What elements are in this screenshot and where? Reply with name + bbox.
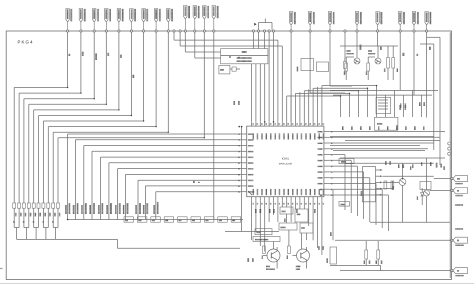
wire hrun 222 xyxy=(370,221,450,223)
IC801 right pin 26 xyxy=(317,166,332,167)
IC801 right pin 24 xyxy=(317,154,332,155)
wire cap run xyxy=(253,32,255,48)
wire bus-left 2 xyxy=(19,32,82,203)
wire IC top to right xyxy=(287,85,377,117)
IC801 right pin 29 xyxy=(317,183,332,184)
resistor R833 xyxy=(384,58,390,73)
table box th xyxy=(253,237,280,242)
connector tag T6 SCL OUT xyxy=(130,9,136,33)
resistor R871 xyxy=(364,250,371,264)
connector box CN803 xyxy=(361,167,383,202)
wire box drop b xyxy=(255,64,257,122)
wire IR run xyxy=(330,32,352,86)
IC801 left pin 12 xyxy=(238,162,253,163)
jumper J807 xyxy=(218,217,228,222)
wire right frame b xyxy=(433,44,435,150)
connector tag T4 AFT IN xyxy=(105,9,111,33)
labels near IC topleft xyxy=(234,101,240,105)
IC801 bottom pin 42 xyxy=(260,189,262,205)
IC801 bottom pin 29 xyxy=(318,189,320,205)
resistor R856 xyxy=(391,181,394,189)
resistor R827 xyxy=(42,203,46,228)
net label xyxy=(229,56,231,58)
wire C3 run xyxy=(399,32,401,90)
IC801 top pin 60 xyxy=(252,122,254,140)
IC801 left pin 22 xyxy=(238,191,254,192)
wire IC right fanout xyxy=(330,132,445,232)
IC801 top pin 49 xyxy=(300,122,302,140)
resistor R824 xyxy=(27,203,31,228)
svg-text:MAIN uCOM: MAIN uCOM xyxy=(279,163,292,166)
top bus junction xyxy=(272,30,274,32)
wire hrun 231 xyxy=(225,231,279,233)
wire right frame c xyxy=(439,37,441,165)
IC801 left pin 8 xyxy=(239,151,254,152)
IC801 top pin 44 xyxy=(322,122,324,140)
connector tag T13 YS OUT 1 xyxy=(212,6,218,33)
net label xyxy=(82,52,84,56)
resistor R830 xyxy=(57,203,61,228)
IC801 top pin 56 xyxy=(269,122,271,140)
connector tag T12 B OUT 1 xyxy=(203,6,209,33)
transistor Q803 xyxy=(347,50,361,64)
connector tag T1 SW 9V IN xyxy=(66,9,72,33)
connector tag T9 ABL IN xyxy=(167,9,173,33)
IC801 top pin 53 xyxy=(282,122,284,140)
net label xyxy=(238,57,240,58)
resistor R829 xyxy=(52,203,56,228)
IC801 bottom pin 44 xyxy=(252,189,254,205)
wire Q806 drop xyxy=(426,158,428,222)
resistor R832 xyxy=(366,63,370,75)
jumper J805 xyxy=(191,217,201,222)
wire top frame c xyxy=(420,43,434,45)
IC801 left pin 14 xyxy=(238,168,253,169)
resistor R831 xyxy=(344,63,348,75)
connector tag T20 HD IN 2 xyxy=(412,12,418,33)
IC801 bottom pin 34 xyxy=(296,189,298,205)
top bus junction xyxy=(344,30,346,32)
wire A1 run xyxy=(377,32,379,46)
IC801 bottom pin 37 xyxy=(282,189,284,205)
wire to IC top b xyxy=(281,46,283,122)
top bus junction xyxy=(268,30,270,32)
box xtal sub xyxy=(280,207,293,214)
IC801 bottom pin 31 xyxy=(309,189,311,205)
IC801 right pin 23 xyxy=(317,148,332,149)
IC801 top pin 55 xyxy=(274,122,276,140)
transistor Q805 xyxy=(392,178,406,190)
IC801 bottom pin 41 xyxy=(265,189,267,205)
IC801 top pin 59 xyxy=(256,122,258,140)
wire KEY2 run xyxy=(310,32,345,93)
coil stack xyxy=(448,142,451,155)
resistor R872 xyxy=(376,250,383,264)
wire bus-left 10 xyxy=(58,32,205,203)
IC801 top pin 47 xyxy=(309,122,311,140)
wire IC801 pin18 to CN line xyxy=(115,169,241,220)
resistor R825 xyxy=(32,203,36,228)
wire left pull-up bus xyxy=(13,221,240,248)
resistor R821 xyxy=(13,203,17,228)
wire bus-left 5 xyxy=(34,32,120,203)
wire IC801 pin22 to CN line xyxy=(153,192,241,220)
IC801 bottom pin 28 xyxy=(322,189,324,205)
resonator X801 box xyxy=(376,98,406,114)
wire C2 run xyxy=(413,32,415,95)
IC801 left pin 2 xyxy=(239,134,254,135)
page fold line xyxy=(0,283,474,285)
wire cap run xyxy=(273,32,275,122)
IC801 top pin 48 xyxy=(304,122,306,140)
net label mid xyxy=(193,181,200,183)
svg-text:P K G 4: P K G 4 xyxy=(18,40,34,45)
wire hrun 265 xyxy=(330,265,381,270)
wire drops to row xyxy=(386,90,422,117)
net label xyxy=(429,47,431,50)
wire bus-left 8 xyxy=(48,32,157,203)
connector tag T18 LED OUT 2 xyxy=(376,12,382,33)
box D802 pack xyxy=(420,182,431,190)
wire CN key line xyxy=(67,219,243,221)
IC801 top pin 50 xyxy=(296,122,298,140)
edge tick xyxy=(0,268,3,270)
resistor R862 xyxy=(287,246,291,259)
diode D801 xyxy=(421,188,424,205)
resistor R822 xyxy=(18,203,22,228)
label box C834 xyxy=(255,229,272,235)
connector tag T19 DEF OUT xyxy=(398,12,404,33)
box IC802a xyxy=(279,223,297,230)
connector tag T15 KEY IN 2 xyxy=(308,12,314,33)
junction dots top pins xyxy=(264,121,274,123)
bracket over C801/C802 xyxy=(254,19,272,30)
wire bus-left 7 xyxy=(43,32,144,203)
box IC806 xyxy=(297,59,314,72)
IC801 right pin 20 xyxy=(317,131,332,132)
wire A6 run xyxy=(213,32,215,219)
IC801 left pin 20 xyxy=(238,185,253,186)
net label xyxy=(69,54,71,56)
IC801 right pin 21 xyxy=(317,137,332,138)
IC801 bottom pin 30 xyxy=(313,189,315,205)
wire Q805 drop xyxy=(402,163,404,222)
tag TUNER AGC xyxy=(434,176,468,185)
tag H OUT xyxy=(335,237,468,246)
connector tag T7 H SYNC IN xyxy=(142,9,148,33)
IC801 bottom pin 39 xyxy=(274,189,276,205)
IC801 bottom pin 43 xyxy=(256,189,258,205)
connector tag T16 IR IN 2 xyxy=(328,12,334,33)
top bus junction xyxy=(263,30,265,32)
wire IC top fanout xyxy=(287,86,322,123)
table box CN802 pins xyxy=(221,49,268,64)
net label xyxy=(95,53,97,60)
connector tag T21 AFC IN 2 xyxy=(425,12,431,33)
connector tag T10 R OUT 1 xyxy=(184,6,190,33)
svg-text:IC801: IC801 xyxy=(282,158,290,161)
IC801 top pin 45 xyxy=(318,122,320,140)
wire CN803 to Q805 xyxy=(383,176,434,188)
label box CN807 xyxy=(339,202,350,207)
wire q-row xyxy=(340,46,398,80)
transistor Q804 xyxy=(368,50,381,64)
wire hrun 140 xyxy=(345,139,440,141)
wire to IC top a xyxy=(277,40,279,122)
IC801 left pin 6 xyxy=(239,145,254,146)
IC801 bottom pin 33 xyxy=(300,189,302,205)
jumper J806 xyxy=(204,217,214,222)
label box CN806 xyxy=(339,159,354,164)
resistor R826 xyxy=(37,203,41,228)
IC801 top pin 52 xyxy=(287,122,289,140)
resistor R834 xyxy=(392,58,398,73)
IC801 bottom pin 40 xyxy=(269,189,271,205)
wire IC801 pin17 to CN line xyxy=(106,163,241,220)
IC801 top pin 51 xyxy=(291,122,293,140)
IC801 right pin 25 xyxy=(317,160,332,161)
label PKG 4 xyxy=(18,40,34,45)
jumper J800 xyxy=(124,217,134,222)
wire bus-left 6 xyxy=(39,32,133,203)
box IC802b xyxy=(300,223,313,233)
wire bus-left 9 xyxy=(53,32,169,203)
resistor R823 xyxy=(22,203,26,228)
net label xyxy=(416,54,418,56)
wire xtal links xyxy=(274,214,307,249)
connector tag T14 KEY IN 1 xyxy=(289,12,295,33)
transistor Q801 xyxy=(263,247,280,270)
IC801 bottom pin 32 xyxy=(304,189,306,205)
IC801 left pin 16 xyxy=(238,174,253,175)
IC801 bottom pin 36 xyxy=(287,189,289,205)
resistor R861 xyxy=(262,246,266,259)
net label xyxy=(403,53,405,56)
wire IC801 pin12 to CN line xyxy=(65,134,241,220)
IC801 top pin 57 xyxy=(265,122,267,140)
top bus junction xyxy=(257,30,259,32)
jumper J808 xyxy=(231,217,241,222)
wire hrun 136 xyxy=(330,136,434,138)
connector tag T8 V SYNC IN xyxy=(154,9,160,33)
box CN804 xyxy=(326,247,336,264)
IC801 left pin 4 xyxy=(239,139,254,140)
wire box drop a xyxy=(251,64,253,122)
IC801 top pin 58 xyxy=(260,122,262,140)
wire box drop c xyxy=(259,64,261,122)
labels band 160 xyxy=(398,162,445,170)
wire RGB runs xyxy=(174,32,282,58)
wire top frame b xyxy=(427,36,440,38)
wire cap run xyxy=(264,32,266,48)
wire v333 xyxy=(332,190,334,240)
net label xyxy=(360,45,362,51)
wire cap run xyxy=(268,32,270,122)
wire jct run xyxy=(344,32,346,58)
top bus junction xyxy=(179,30,181,32)
resistor R828 xyxy=(47,203,51,228)
labels mid-right row xyxy=(342,125,425,130)
labels right of X801 xyxy=(400,102,425,108)
wire bus-left 4 xyxy=(29,32,107,203)
wire IC801 pin21 to CN line xyxy=(143,186,241,220)
IC801 right pin 22 xyxy=(317,143,332,144)
connector tag T5 SDA OUT xyxy=(117,9,123,33)
IC801 right pin 30 xyxy=(320,189,333,190)
wire reset run xyxy=(238,126,242,232)
transistor IC803 xyxy=(293,247,310,270)
jumper J803 xyxy=(164,217,174,222)
box reso xyxy=(295,209,308,222)
wire IC801 pin16 to CN line xyxy=(98,157,241,219)
wire IC801 pin15 to CN line xyxy=(89,151,241,219)
wire hrun 158 xyxy=(340,157,445,159)
net label xyxy=(132,75,134,78)
wire hrun 145 xyxy=(330,145,420,147)
IC801 left pin 18 xyxy=(238,180,253,181)
tag TUNER BT xyxy=(430,188,468,197)
connector tag T17 POWER SW xyxy=(355,12,361,33)
wire box drop d xyxy=(264,64,266,122)
labels right strip xyxy=(455,204,463,229)
wire KEY1 run xyxy=(290,32,292,122)
net label xyxy=(120,55,122,58)
wire cap run xyxy=(258,32,260,48)
resistor R855 xyxy=(384,181,387,189)
IC801 right pin 31 xyxy=(320,194,333,195)
net label xyxy=(380,47,382,50)
jumper J801 xyxy=(137,217,147,222)
IC801 left pin 10 xyxy=(238,157,253,158)
wire bus-left 3 xyxy=(24,32,95,203)
IC801 bottom pin 38 xyxy=(278,189,280,205)
wire bus-left 1 xyxy=(14,32,68,203)
wire hrun 95 xyxy=(333,94,432,96)
wire hrun 163 xyxy=(345,162,434,164)
wire C1 run xyxy=(426,32,428,117)
IC801 right pin 28 xyxy=(317,177,332,178)
wire IC801 pin13 to CN line xyxy=(73,140,241,220)
jumper J802 xyxy=(151,217,161,222)
net label xyxy=(107,53,109,56)
wire IC801 pin14 to CN line xyxy=(81,146,241,220)
labels right cluster xyxy=(385,161,442,170)
top bus junction xyxy=(252,30,254,32)
IC801 top pin 46 xyxy=(313,122,315,140)
box IC805 xyxy=(374,118,398,131)
IC801 bottom pin 35 xyxy=(291,189,293,205)
labels bottom mid xyxy=(248,218,332,262)
op IC801 body xyxy=(247,126,324,197)
wire right frame a xyxy=(449,32,451,278)
wire IC801 pin20 to CN line xyxy=(135,180,241,219)
component X802 cluster xyxy=(219,65,240,74)
wire hrun 90 xyxy=(330,89,438,91)
top bus junction xyxy=(173,30,175,32)
transistor Q806 xyxy=(417,190,430,200)
wire r-verticals xyxy=(366,241,378,265)
IC801 top pin 54 xyxy=(278,122,280,140)
connector tag T2 P ON OUT xyxy=(79,9,85,33)
jumper J804 xyxy=(178,217,188,222)
wire A2 run xyxy=(356,32,358,46)
IC801 right pin 27 xyxy=(317,171,332,172)
wire IC bottom fanout xyxy=(252,201,322,255)
box IC807 xyxy=(317,62,329,72)
connector tag T3 A MUTE OUT xyxy=(93,9,99,33)
connector tag T11 G OUT 1 xyxy=(193,6,199,33)
wire IC801 pin19 to CN line xyxy=(123,174,241,219)
resistor R838 xyxy=(344,58,347,74)
labels under IC xyxy=(255,209,316,213)
tag V OUT xyxy=(340,268,468,277)
wire hrun 150 xyxy=(333,150,425,152)
